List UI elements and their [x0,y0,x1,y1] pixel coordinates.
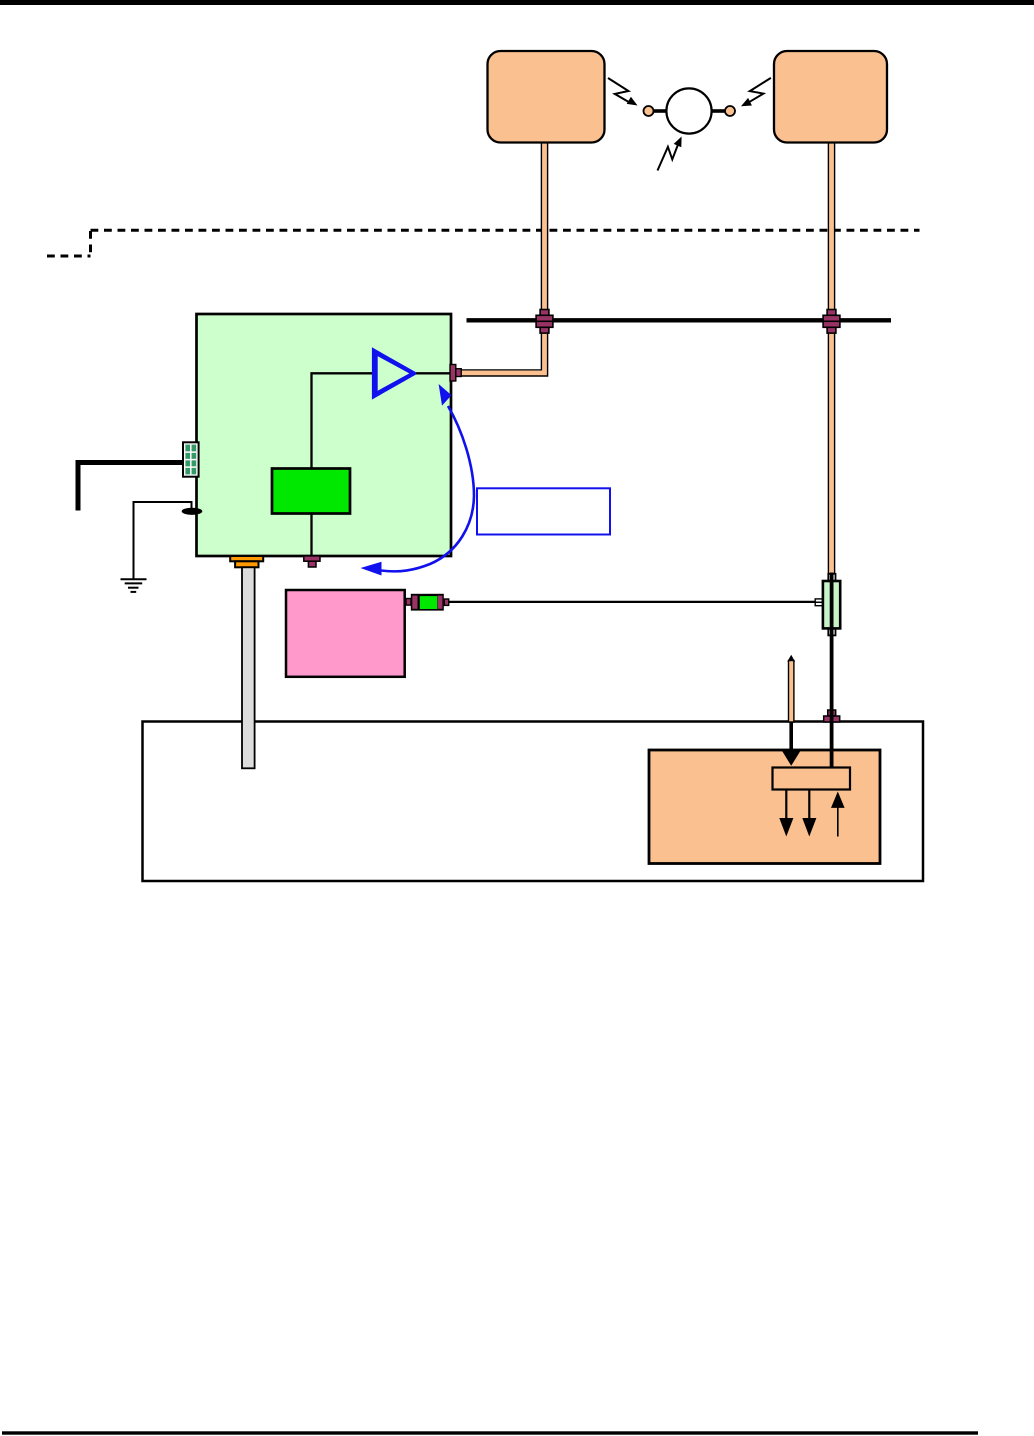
antenna unit left [488,51,605,143]
coax cable right (antenna unit to lightning protector) [828,142,836,574]
RF bus wire [467,318,892,322]
stub wire right of circle [711,109,726,113]
multi-pin connector on left edge of transceiver [183,442,199,476]
protector-to-indicator cable [830,573,834,768]
indicator unit box (orange, bottom) [649,750,880,864]
antenna lead with arrow into terminal strip [782,722,801,766]
lightning arrow left [608,78,638,106]
coax cable left (antenna unit to transceiver) [460,142,545,374]
rotary joint circle [666,88,711,133]
modulator block (bright green) [272,469,350,514]
antenna mast (gray) [242,567,255,768]
ground symbol [121,579,147,592]
curved blue double arrow [361,384,475,576]
power wire (thick) into multi-pin connector [78,463,183,511]
control unit box (pink) [286,590,405,677]
equipment enclosure box (bottom) [143,722,924,882]
GPS antenna stick [787,655,795,722]
output arrow 1 (down) from terminal strip [779,790,793,837]
callout box (blue outline) [477,488,610,534]
bulkhead connector (maroon) at enclosure top [824,710,840,722]
control cable wire [449,601,816,603]
antenna unit right [774,51,887,143]
coax connector pair on right cable [823,310,840,334]
input arrow (up) to terminal strip [831,792,845,837]
control cable connector (white) [815,599,823,606]
output arrow 2 (down) from terminal strip [802,790,816,837]
lightning arrow bottom [658,137,682,171]
ground wire [134,502,192,579]
wire modulator to bottom connector [310,514,312,557]
terminal dot left [644,106,654,116]
control connector (maroon) on bottom of transceiver [304,556,320,567]
terminal dot right [725,106,735,116]
wire input to amplifier [312,373,373,468]
wire amplifier output [416,372,451,374]
amplifier triangle [372,347,418,399]
terminal strip inside indicator [773,768,851,790]
RF output connector on right edge of transceiver [450,365,461,382]
inline adapter (green with maroon caps) [406,594,449,611]
lightning arrow right [741,78,771,106]
transceiver unit box (green) [197,314,452,556]
boundary dashed line (air interface) [47,230,920,256]
stub wire left of circle [652,109,667,113]
feedthrough capacitor (black oval) on box wall [182,508,203,515]
lightning protector (pale green, vertical) [823,574,840,636]
antenna feed connector (orange) on bottom of transceiver [230,556,263,567]
coax connector pair on left cable [536,310,553,334]
